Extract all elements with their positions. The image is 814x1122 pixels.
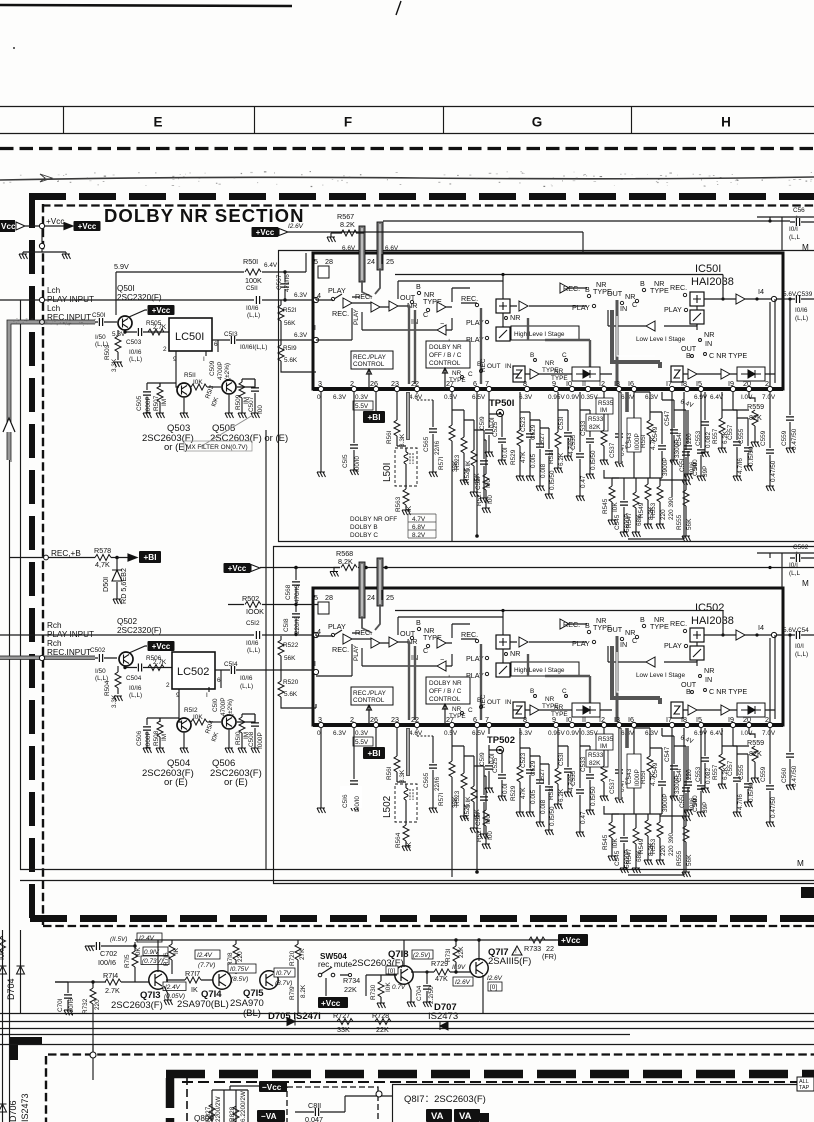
diode D704b [17,966,25,974]
svg-text:I: I [203,356,205,363]
svg-text:R522: R522 [283,642,299,649]
svg-text:or (E): or (E) [164,777,188,788]
wire down [41,229,43,243]
transistor Q715 [260,971,278,989]
svg-text:5.6V: 5.6V [783,627,797,634]
svg-text:C5I4: C5I4 [224,661,238,668]
C551 column [687,410,689,474]
svg-text:(L,L): (L,L) [129,356,142,363]
svg-text:R53I: R53I [548,450,555,464]
svg-text:R509: R509 [235,394,242,410]
svg-text:CONTROL: CONTROL [429,360,461,367]
R549 8.2K deep [647,478,649,524]
svg-text:2I: 2I [765,379,771,388]
svg-text:6.6V: 6.6V [385,245,399,252]
+Vcc rail wire [288,232,583,253]
inner thick dashed box top [166,1070,814,1079]
ground under R503 [114,362,123,367]
wires mid row [513,373,612,375]
svg-text:Vcc: Vcc [1,222,16,231]
svg-text:−: − [440,319,444,328]
shaded bundle right [612,310,660,368]
svg-text:8.2K: 8.2K [340,220,355,229]
R553 deep [659,478,661,524]
svg-text:22K: 22K [376,1025,389,1034]
top margin line [0,5,292,6]
resistor R568 [341,565,357,571]
node [115,556,119,560]
svg-text:C508: C508 [248,731,255,747]
svg-text:2SC2603(F) or (E): 2SC2603(F) or (E) [210,433,288,444]
svg-text:B: B [585,285,590,294]
svg-text:I5: I5 [696,379,702,388]
svg-text:I00/I0: I00/I0 [354,796,361,812]
feedback wire [362,312,452,330]
transistor Q718 [395,966,413,984]
svg-text:I/50: I/50 [95,334,106,341]
svg-text:(L,L): (L,L) [795,315,808,322]
pin14 node [771,296,776,301]
R717 wire [166,979,213,981]
svg-text:56K: 56K [284,655,296,662]
svg-text:0.3V: 0.3V [355,394,369,401]
IC501 pin row emphasis [313,387,783,391]
svg-text:VA: VA [459,1111,472,1122]
resistor R561 [396,392,398,446]
-Vcc feed box [0,220,15,232]
C560 right edge cap [789,635,791,785]
diode D501 [116,558,118,600]
svg-text:PLAY: PLAY [664,305,682,314]
feed arrow [16,222,25,230]
svg-text:I0/I: I0/I [795,643,804,650]
wire from LC501 pin6 [212,339,316,341]
resistor R578 [95,555,111,561]
svg-text:C567: C567 [276,274,283,290]
capacitor C510 [220,670,222,688]
svg-text:NR: NR [452,370,462,377]
svg-text:R52I: R52I [283,307,297,314]
svg-text:100K: 100K [245,276,262,285]
node pin4 [313,632,318,637]
diode box mid [572,367,600,381]
svg-text:R7I9: R7I9 [289,986,296,1000]
svg-text:C NR TYPE: C NR TYPE [709,351,747,360]
capacitor C702 [96,942,99,950]
svg-text:REC,+B: REC,+B [51,549,81,558]
svg-text:R549: R549 [638,502,645,518]
LC501 pin1 stub [205,351,207,356]
svg-text:[0]: [0] [490,984,497,991]
svg-text:6.4V: 6.4V [264,262,278,269]
svg-text:I00: I00 [487,495,494,504]
svg-text:R535: R535 [598,400,614,407]
bus arrow [3,418,15,432]
pin 18 deep wire [628,392,684,539]
top return wire [395,275,723,300]
svg-text:(8.7V): (8.7V) [275,980,292,987]
svg-text:I0K: I0K [385,982,392,992]
node on REC wire [40,320,45,325]
svg-text:R57I: R57I [438,456,445,470]
DOLBY box thin dashed inner left [42,204,44,925]
svg-text:M: M [797,859,804,868]
svg-text:+Vcc: +Vcc [561,936,581,945]
svg-text:5.6K: 5.6K [284,691,298,698]
shaded bus down from NR node [409,306,415,384]
pin voltages [317,394,776,410]
svg-text:2SC2603(F): 2SC2603(F) [111,1000,163,1011]
C549 3900P [650,412,662,478]
control arrow 2 [443,368,448,389]
Q503 emitter down [183,398,185,413]
svg-text:I0/I6: I0/I6 [246,305,259,312]
svg-text:6.5V: 6.5V [472,394,486,401]
R551 4.7K [634,392,650,478]
svg-text:NR: NR [510,313,520,322]
DOLBY box thick dashed left border [29,194,35,925]
feedback amp left [437,325,446,335]
svg-text:I0.75V: I0.75V [230,966,249,973]
svg-text:C503: C503 [126,339,142,346]
svg-text:OUT: OUT [607,289,623,298]
wire sum2 chain [696,306,698,330]
svg-text:6.3V: 6.3V [645,394,659,401]
svg-text:C54I: C54I [676,432,683,446]
resistor R523 [452,410,464,480]
svg-text:I3: I3 [614,379,620,388]
svg-text:NR: NR [704,330,714,339]
LC501 pin9 wire down [176,351,179,387]
R715 column [134,946,136,982]
svg-text:6.3V: 6.3V [294,292,308,299]
svg-text:5.6V: 5.6V [783,291,797,298]
svg-text:6.3V: 6.3V [519,394,533,401]
svg-text:(L,L): (L,L) [247,312,260,319]
svg-text:R502: R502 [242,594,259,603]
resistor R510 [241,714,243,748]
svg-text:C8II: C8II [308,1101,321,1110]
capacitor C531 [558,410,568,456]
svg-text:(L,L): (L,L) [795,651,808,658]
svg-text:+: + [795,550,799,557]
transistor Q504 [177,718,191,732]
svg-text:47K: 47K [520,451,527,463]
interior wires upper [352,281,503,307]
svg-text:Lch: Lch [47,286,61,295]
svg-text:I000P: I000P [145,731,152,748]
svg-text:DOLBY NR: DOLBY NR [429,344,462,351]
deep tier bus [604,470,662,478]
arrow wire [45,223,73,230]
rec input shaded bus [9,322,95,460]
svg-text:R557: R557 [712,428,719,444]
svg-text:(L,L): (L,L) [129,692,142,699]
svg-text:3.3K: 3.3K [111,358,118,372]
svg-text:IK: IK [406,505,413,512]
svg-text:+: + [795,214,799,221]
svg-text:CONTROL: CONTROL [353,361,385,368]
shielded lead pin22 to L501 [406,392,410,440]
svg-text:2SA970(BL): 2SA970(BL) [177,999,229,1010]
svg-text:(±2%): (±2%) [224,363,231,380]
wire to right edge cap [383,220,790,222]
variable box z mid [513,366,525,382]
svg-text:C559: C559 [781,430,788,446]
svg-text:IM: IM [161,399,168,406]
svg-text:R727: R727 [333,1011,350,1020]
svg-text:Low Leve l Stage: Low Leve l Stage [636,336,685,343]
svg-text:56K: 56K [686,518,693,530]
svg-text:(L,L: (L,L [789,234,800,241]
capacitor C512 [256,631,259,639]
NR select amp [437,302,446,312]
post amp [519,301,528,311]
wire to right box [345,1096,392,1112]
emitter node [125,666,137,668]
C568 column [295,568,297,601]
transistor Q501 [118,316,132,330]
svg-text:(L,L): (L,L) [240,683,253,690]
svg-text:2: 2 [350,379,354,388]
capacitor C504 [138,664,141,672]
svg-text:IS2473: IS2473 [428,1011,458,1022]
svg-text:4700P: 4700P [217,362,224,380]
svg-text:I: I [314,323,316,332]
svg-text:7: 7 [485,379,489,388]
extra bus line [0,1044,814,1046]
svg-text:C555: C555 [738,428,745,444]
wires across middle [560,288,587,306]
svg-text:I9: I9 [728,379,734,388]
svg-text:6.3V: 6.3V [294,332,308,339]
Lch circuit frame [279,251,814,542]
C704 column [426,972,428,1002]
svg-text:3: 3 [318,379,322,388]
svg-text:MX FILTER ON(0.7V): MX FILTER ON(0.7V) [186,444,248,451]
svg-text:M: M [802,579,809,588]
svg-text:R720: R720 [289,950,296,966]
L502 label [380,790,391,818]
svg-text:R520: R520 [283,679,299,686]
R827 column [212,1090,224,1122]
capacitor C515 [353,392,355,470]
svg-text:R547: R547 [626,512,633,528]
+Vcc box [74,221,101,231]
svg-text:B: B [416,282,421,291]
resistor R527 [484,440,486,508]
wire R507/C505 top [147,383,176,387]
svg-text:C52I: C52I [475,476,482,490]
svg-text:R503: R503 [104,344,111,360]
wire top [147,718,179,722]
svg-text:DOLBY C: DOLBY C [350,532,378,539]
gain box slash [496,327,510,341]
L501 dashed box [395,448,417,486]
transistor Q713 [149,971,167,989]
svg-text:0.47/50: 0.47/50 [770,460,777,482]
R559 82K boxed [749,392,755,402]
svg-text:22/I6: 22/I6 [434,440,441,455]
capacitor C525 [489,414,502,460]
svg-text:20: 20 [743,379,751,388]
svg-text:26: 26 [370,379,378,388]
svg-text:0.082: 0.082 [705,432,712,448]
wires low row [683,374,775,383]
amp 3 [389,301,398,311]
svg-text:REC./PLAY: REC./PLAY [353,354,387,361]
svg-text:C50I: C50I [92,312,106,319]
svg-text:G: G [532,115,543,130]
svg-text:I/50: I/50 [95,668,106,675]
svg-text:0.7V: 0.7V [392,984,406,991]
svg-text:!: ! [515,948,517,955]
cluster top wire [212,1086,259,1090]
Q504 emitter down [183,733,185,748]
svg-text:REC.: REC. [670,283,687,292]
svg-text:I0/I6I(L,L): I0/I6I(L,L) [240,344,267,351]
svg-text:R56I: R56I [386,430,393,444]
capacitor C537 [618,392,620,462]
svg-text:D705 IS247I: D705 IS247I [268,1011,321,1022]
C559b right edge cap [789,299,791,448]
svg-text:OFF / B / C: OFF / B / C [429,352,462,359]
svg-text:I000P: I000P [257,732,264,749]
R730 column [380,975,382,1003]
node on border [44,555,49,560]
svg-text:I0K: I0K [135,947,142,957]
C516 labels [340,786,362,808]
svg-text:IS2473: IS2473 [20,1093,30,1122]
svg-text:B: B [640,279,645,288]
svg-text:C55I: C55I [679,458,686,472]
svg-text:(BL): (BL) [243,1008,261,1019]
svg-text:27K: 27K [299,948,306,960]
svg-text:R7I5: R7I5 [124,954,131,968]
DOLBY box thick dashed top border [29,193,814,200]
resistor R529 [519,392,521,476]
svg-text:0.9V: 0.9V [566,394,580,401]
svg-text:E: E [153,115,162,130]
svg-text:I0/I6: I0/I6 [129,349,142,356]
svg-text:4,7K: 4,7K [95,560,110,569]
svg-text:0.0I5: 0.0I5 [530,453,537,468]
bottom corner thick bar [10,1037,42,1045]
Q714 callouts [195,950,220,959]
svg-text:Lch: Lch [47,304,61,313]
pin 24/25 divider [381,254,383,264]
svg-text:220: 220 [660,509,667,520]
-VA box [257,1110,285,1122]
scan speckle [3,47,814,326]
fold artifact line [0,177,814,180]
svg-text:24: 24 [367,257,375,266]
coordinate band top line [0,106,814,108]
svg-text:REC.: REC. [332,309,349,318]
svg-text:470/I6: 470/I6 [294,585,301,603]
svg-text:(0.73V): (0.73V) [142,958,163,965]
svg-text:IK: IK [406,841,413,848]
svg-text:B: B [530,352,534,359]
top tick slash [396,1,401,15]
diode box right [737,367,765,381]
svg-text:R504: R504 [104,680,111,696]
svg-text:C5I9: C5I9 [479,416,486,430]
svg-text:C507: C507 [248,396,255,412]
svg-text:C5I0: C5I0 [212,698,219,712]
capacitor C521 [474,430,484,498]
svg-text:R50I: R50I [243,257,258,266]
C559 0.47/50 [769,392,771,486]
capacitor C514 [231,666,234,674]
+Vcc box Q501 [148,305,175,315]
svg-text:3.3K: 3.3K [399,433,406,447]
wires amp chain [352,303,409,307]
amp 2 [371,302,380,312]
svg-text:IC50I: IC50I [695,263,721,275]
left vertical wire x20 [20,300,22,870]
svg-text:OUT: OUT [487,363,501,370]
svg-text:0.0I8: 0.0I8 [540,463,547,478]
VA boxes [426,1109,452,1122]
svg-text:R5I0: R5I0 [235,731,242,745]
svg-text:IOOK: IOOK [246,607,264,616]
node pin4 [313,297,318,302]
svg-text:R578: R578 [94,546,111,555]
Q718 emitter ground [408,982,411,1002]
svg-text:0.47: 0.47 [580,475,587,488]
svg-text:22: 22 [411,379,419,388]
rec input wire [0,656,95,659]
svg-text:C56: C56 [793,207,805,214]
svg-text:I4: I4 [758,287,764,296]
resistor R519 [281,340,316,372]
svg-text:470/I6: 470/I6 [284,274,291,292]
svg-text:I000P: I000P [145,396,152,413]
C545 5600P deep [623,478,625,532]
node on rec wire [39,655,44,660]
svg-text:IN: IN [505,363,512,370]
pin 20 wire [733,392,749,410]
svg-text:II: II [582,379,586,388]
svg-text:R525: R525 [464,467,471,483]
svg-text:I: I [206,692,208,699]
IC502 outer box [313,588,783,725]
capacitor C511 [256,296,259,304]
svg-text:C560: C560 [781,767,788,783]
svg-text:0.047: 0.047 [305,1115,323,1122]
svg-text:0.I5/50: 0.I5/50 [748,446,755,466]
svg-text:C: C [562,352,567,359]
svg-text:PLAY: PLAY [328,286,346,295]
ground [62,254,71,259]
transistor Q505 [222,380,236,394]
svg-text:(2.5V): (2.5V) [413,952,430,959]
svg-text:[0]: [0] [388,968,395,975]
svg-text:8.2K: 8.2K [338,557,353,566]
R547 68K deep [635,478,637,532]
svg-text:I0/I6: I0/I6 [129,685,142,692]
svg-text:rec. mute: rec. mute [318,960,353,969]
svg-text:C545: C545 [614,514,621,530]
L501 coil [397,446,406,452]
svg-text:I0.7V: I0.7V [276,970,292,977]
svg-text:Rch: Rch [47,639,62,648]
resistor R508 [159,718,161,748]
L502 coil [397,782,406,788]
transistor Q714 [213,971,231,989]
svg-text:4700P: 4700P [220,698,227,716]
